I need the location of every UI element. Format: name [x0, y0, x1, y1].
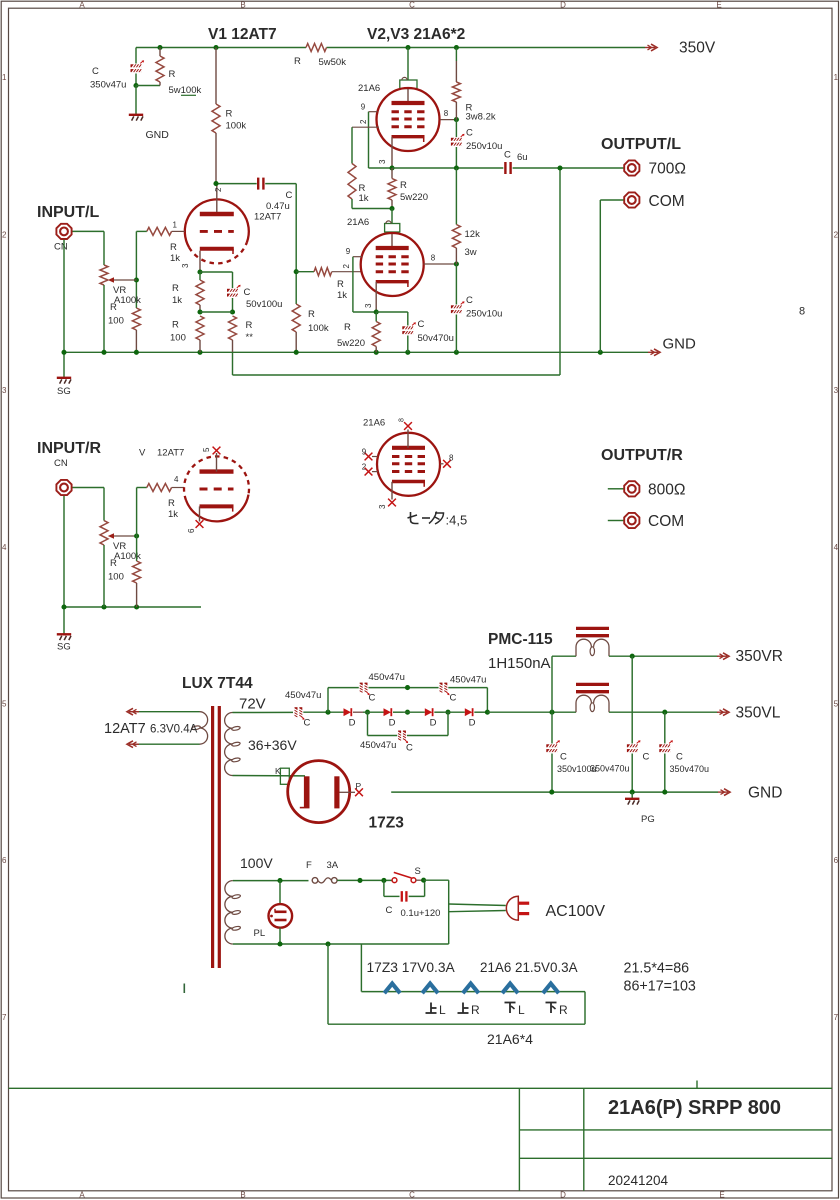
label shitaR — [546, 1002, 557, 1004]
svg-text:6: 6 — [187, 528, 196, 533]
resistor 12k 3w — [455, 168, 457, 225]
capacitor C 350v100u — [551, 712, 553, 743]
junction dot d3-d4 — [445, 710, 450, 715]
svg-text:7: 7 — [2, 1013, 7, 1022]
heater winding 6.3V — [200, 712, 208, 728]
pin 9 nc — [372, 456, 378, 458]
capacitor C 50v100u — [232, 272, 234, 288]
svg-text:R: R — [344, 322, 351, 333]
svg-text:R: R — [400, 180, 407, 191]
svg-text:20241204: 20241204 — [608, 1173, 669, 1188]
heater 21A6 lower L — [502, 984, 518, 994]
svg-text:C: C — [406, 743, 413, 754]
wire plate node to coupling cap — [216, 183, 257, 185]
svg-text:CN: CN — [54, 242, 68, 253]
switch S — [392, 878, 397, 883]
svg-text:E: E — [719, 1191, 724, 1200]
capacitor C 350v470u mid — [631, 656, 633, 743]
svg-text:C: C — [244, 287, 251, 298]
svg-text:5w220: 5w220 — [400, 192, 428, 203]
transformer core — [211, 706, 214, 968]
svg-text:0.1u+120: 0.1u+120 — [401, 908, 441, 919]
resistor R 100 cathode — [196, 316, 204, 340]
svg-text:0.47u: 0.47u — [266, 201, 290, 212]
svg-text:L: L — [439, 1003, 446, 1017]
junction dot cap/R5w100k — [133, 83, 138, 88]
wire to doubler — [303, 711, 343, 713]
svg-text:8: 8 — [799, 306, 805, 318]
wire 100V top — [233, 880, 309, 882]
svg-text:21A6: 21A6 — [363, 418, 385, 429]
resistor R 1k grid R — [137, 487, 147, 489]
svg-text:1: 1 — [2, 73, 7, 82]
svg-text:450v47u: 450v47u — [360, 740, 396, 751]
junction dot grid node — [294, 269, 299, 274]
pin 3 V3 cathode — [375, 282, 377, 312]
svg-text:C: C — [286, 190, 293, 201]
ground GND — [135, 86, 137, 115]
svg-text:R: R — [169, 69, 176, 80]
svg-text:LUX 7T44: LUX 7T44 — [182, 675, 253, 692]
svg-text:PL: PL — [254, 928, 266, 939]
lamp PL neon — [279, 881, 281, 905]
potentiometer VR A100k — [103, 231, 105, 265]
pin 5 plate no-connect — [216, 453, 218, 472]
svg-text:C: C — [643, 752, 650, 763]
junction dot rectifier output — [485, 710, 490, 715]
svg-text:D: D — [430, 718, 437, 729]
svg-text:450v47u: 450v47u — [450, 675, 486, 686]
svg-text:8: 8 — [449, 454, 454, 463]
pin 3 V2 cathode — [391, 137, 393, 168]
resistor R 100k grid leak — [292, 304, 300, 332]
wire cap to R 5w100k — [136, 85, 160, 87]
svg-text:GND: GND — [663, 336, 697, 353]
resistor R 5w50k — [306, 44, 327, 52]
svg-text:8: 8 — [431, 254, 436, 263]
svg-text:INPUT/L: INPUT/L — [37, 204, 99, 221]
svg-text:6: 6 — [834, 856, 839, 865]
svg-text:3: 3 — [2, 386, 7, 395]
wire bottom branch right — [407, 735, 448, 737]
svg-text:9: 9 — [361, 103, 366, 112]
wire to AC plug — [449, 904, 506, 906]
svg-text:9: 9 — [346, 247, 351, 256]
wire top branch — [327, 688, 329, 713]
junction dots cathode bottom — [197, 309, 202, 314]
resistor R 5w100k — [159, 48, 161, 57]
pin 2 V2 — [352, 126, 379, 128]
secondary winding 72V/36+36V — [225, 713, 233, 729]
heater 17Z3 — [384, 984, 400, 994]
svg-text:3: 3 — [378, 504, 387, 509]
heater 21A6 lower R — [543, 984, 559, 994]
label ueR — [462, 1003, 464, 1014]
wire 6.3V leads — [135, 711, 200, 713]
svg-text:V: V — [139, 448, 146, 459]
resistor R 1k cathode — [199, 272, 201, 280]
wire 72V line — [233, 711, 294, 713]
svg-text:C: C — [418, 319, 425, 330]
svg-text:21A6*4: 21A6*4 — [487, 1031, 533, 1047]
label ueL — [430, 1003, 432, 1014]
wire top branch to output node — [448, 687, 487, 689]
fuse F 3A — [312, 878, 318, 884]
wire to OUTPUT/L — [513, 167, 624, 169]
K connection box — [280, 768, 289, 784]
svg-text:350v470u: 350v470u — [590, 764, 630, 774]
label heater 4,5 — [411, 512, 419, 524]
svg-text:R: R — [226, 109, 233, 120]
svg-text:12AT7: 12AT7 — [157, 448, 184, 459]
svg-text:21A6: 21A6 — [347, 217, 369, 228]
potentiometer VR A100k wiper arrow — [112, 279, 136, 281]
svg-text:50v470u: 50v470u — [418, 333, 454, 344]
svg-text:2: 2 — [2, 231, 7, 240]
connector 800ohm jack — [608, 488, 624, 490]
svg-text:7: 7 — [834, 1013, 839, 1022]
wire jack R — [73, 487, 105, 489]
svg-text:12AT7: 12AT7 — [254, 212, 281, 223]
connector CN input jack R — [56, 480, 71, 495]
wire fuse to switch — [337, 879, 391, 881]
resistor R 3w8.2k — [455, 48, 457, 62]
wire feedback line — [232, 352, 234, 375]
capacitor C 450v47u top1 — [360, 683, 363, 693]
svg-text:R: R — [172, 283, 179, 294]
svg-text:100: 100 — [108, 572, 124, 583]
svg-text:3: 3 — [181, 263, 190, 268]
svg-text:21A6(P) SRPP 800: 21A6(P) SRPP 800 — [608, 1097, 781, 1119]
heater 21A6 upper L — [422, 984, 438, 994]
svg-text:5w50k: 5w50k — [319, 57, 347, 68]
node 350VL arrow — [717, 711, 727, 713]
svg-text:2: 2 — [359, 119, 368, 124]
svg-text:B: B — [240, 0, 245, 9]
choke upper 350VR — [551, 656, 553, 712]
svg-text:C: C — [676, 752, 683, 763]
svg-text:5: 5 — [2, 700, 7, 709]
svg-text:3: 3 — [378, 159, 387, 164]
svg-text:C: C — [92, 66, 99, 77]
capacitor C 450v47u bottom — [398, 731, 401, 741]
svg-text:350VR: 350VR — [736, 648, 783, 665]
svg-text:SG: SG — [57, 642, 71, 653]
svg-text:V2,V3 21A6*2: V2,V3 21A6*2 — [367, 26, 465, 43]
capacitor C 250v10u lower — [455, 264, 457, 305]
resistor R 100 input — [132, 308, 140, 330]
svg-text:350v470u: 350v470u — [670, 764, 710, 774]
wire 36V to 17Z3 K — [233, 775, 306, 777]
connector 700ohm jack — [624, 160, 639, 175]
wire bottom branch — [367, 712, 369, 735]
capacitor C 0.1u+120 — [383, 880, 385, 896]
svg-text:R: R — [471, 1003, 480, 1017]
tube V1 cathode network — [199, 251, 201, 272]
svg-text:1H150nA: 1H150nA — [488, 655, 551, 672]
wire 350VL line — [609, 711, 718, 713]
capacitor C 350v47u — [135, 48, 137, 64]
pin 1 line V1 — [172, 230, 185, 232]
pin 4 line — [172, 487, 184, 489]
svg-text:6u: 6u — [517, 152, 528, 163]
resistor R 100k plate load — [215, 48, 217, 105]
svg-text:21A6 21.5V0.3A: 21A6 21.5V0.3A — [480, 960, 578, 975]
svg-text:2: 2 — [834, 231, 839, 240]
svg-text:A: A — [79, 0, 85, 9]
pin 2 nc — [372, 471, 378, 473]
svg-text:5: 5 — [202, 447, 211, 452]
svg-text:12AT7: 12AT7 — [104, 721, 146, 737]
svg-text:INPUT/R: INPUT/R — [37, 440, 101, 457]
svg-text:C: C — [304, 718, 311, 729]
svg-text:C: C — [504, 150, 511, 161]
svg-text:V1 12AT7: V1 12AT7 — [208, 26, 277, 43]
primary winding 100V — [225, 881, 233, 897]
wire switch to plug corner — [424, 879, 449, 881]
svg-text:OUTPUT/L: OUTPUT/L — [601, 136, 681, 153]
svg-text:R: R — [170, 242, 177, 253]
svg-text:450v47u: 450v47u — [369, 672, 405, 683]
svg-text:350V: 350V — [679, 40, 716, 57]
svg-text:R: R — [168, 498, 175, 509]
capacitor C 6u coupling — [504, 162, 506, 174]
svg-text:C: C — [466, 295, 473, 306]
diode D3 — [425, 708, 433, 716]
svg-text:250v10u: 250v10u — [466, 141, 502, 152]
svg-text:C: C — [450, 693, 457, 704]
junction dot wiper — [134, 277, 139, 282]
resistor R 5w220 SRPP — [391, 168, 393, 179]
svg-text:6: 6 — [2, 856, 7, 865]
pin 8 V3 — [424, 263, 457, 265]
wire coupling cap to grid node — [265, 183, 296, 185]
wire 350V rail — [136, 47, 306, 49]
top cap no-connect — [407, 430, 409, 448]
svg-text:COM: COM — [648, 513, 684, 530]
svg-text:1: 1 — [834, 73, 839, 82]
svg-text:F: F — [306, 860, 312, 871]
svg-text:D: D — [560, 0, 566, 9]
svg-text:C: C — [560, 752, 567, 763]
svg-text:36+36V: 36+36V — [248, 737, 297, 753]
pin 8 V2 — [440, 119, 456, 121]
wire heater chain start — [360, 944, 362, 992]
capacitor C 0.47u — [257, 178, 259, 190]
svg-text:17Z3: 17Z3 — [369, 815, 405, 832]
svg-text:4: 4 — [834, 543, 839, 552]
ground SG left — [57, 377, 71, 379]
svg-text:3: 3 — [834, 386, 839, 395]
ground PG — [631, 792, 633, 798]
resistor R 1k V2 grid — [351, 127, 353, 163]
svg-text:12k: 12k — [465, 229, 481, 240]
svg-text:700Ω: 700Ω — [649, 161, 686, 178]
svg-text:R: R — [246, 320, 253, 331]
pin 3 nc — [391, 482, 393, 500]
svg-text:CN: CN — [54, 458, 68, 469]
svg-text:C: C — [409, 0, 415, 9]
choke lower 350VL — [576, 683, 609, 686]
wiper arrow R — [112, 535, 137, 537]
junction dot SRPP output — [454, 165, 459, 170]
resistor R 5w220 V3 cathode — [375, 312, 377, 322]
svg-text:2: 2 — [214, 187, 223, 192]
connector COM jack R — [608, 520, 624, 522]
pin 9 V2 — [369, 111, 378, 113]
wire rectifier to chokes — [487, 711, 576, 713]
capacitor C 450v47u top2 — [440, 683, 443, 693]
svg-text:3A: 3A — [327, 860, 339, 871]
svg-text:250v10u: 250v10u — [466, 309, 502, 320]
tube 17Z3 rectifier — [288, 761, 350, 823]
heater 21A6 upper R — [463, 984, 479, 994]
svg-text:21A6: 21A6 — [358, 83, 380, 94]
svg-text:R: R — [110, 302, 117, 313]
stray wire stub — [183, 984, 185, 994]
svg-text:2: 2 — [362, 463, 367, 472]
capacitor C 250v10u upper — [455, 120, 457, 137]
resistor R ** feedback — [229, 316, 237, 340]
svg-text:1k: 1k — [170, 253, 180, 264]
svg-text:R: R — [172, 320, 179, 331]
svg-text:C: C — [409, 1191, 415, 1200]
wire jack L — [73, 230, 105, 232]
svg-text:5w220: 5w220 — [337, 338, 365, 349]
svg-text:100: 100 — [170, 333, 186, 344]
svg-text:72V: 72V — [239, 696, 266, 713]
pin 6 cathode no-connect — [199, 506, 201, 521]
capacitor C 350v470u right — [664, 712, 666, 743]
svg-text:COM: COM — [649, 193, 685, 210]
wire ground rail R — [64, 606, 201, 608]
svg-text:D: D — [349, 718, 356, 729]
svg-text:A100k: A100k — [114, 295, 141, 306]
wire PS ground rail — [391, 791, 718, 793]
node 350V arrow — [645, 47, 655, 49]
svg-text:800Ω: 800Ω — [648, 482, 685, 499]
svg-text:GND: GND — [146, 129, 170, 141]
svg-text:P: P — [356, 781, 362, 791]
svg-text:PG: PG — [641, 814, 655, 825]
svg-text:1k: 1k — [337, 290, 347, 301]
svg-text:9: 9 — [362, 448, 367, 457]
capacitor C 50v470u — [376, 311, 408, 313]
pin 9 V3 — [353, 256, 362, 258]
wire grid vertical R — [136, 488, 138, 562]
svg-text:50v100u: 50v100u — [246, 299, 282, 310]
svg-text:R: R — [559, 1003, 568, 1017]
potentiometer VR A100k R — [103, 488, 105, 521]
wire ground rail L — [64, 351, 648, 353]
svg-text:5: 5 — [834, 700, 839, 709]
svg-text:8: 8 — [399, 418, 406, 422]
svg-text:4: 4 — [174, 475, 179, 484]
svg-text:100V: 100V — [240, 855, 273, 871]
svg-text:R: R — [337, 279, 344, 290]
svg-text:3w8.2k: 3w8.2k — [466, 112, 496, 123]
svg-text:2: 2 — [342, 264, 351, 269]
svg-text:C: C — [386, 905, 393, 916]
svg-text:86+17=103: 86+17=103 — [624, 979, 696, 995]
svg-text:R: R — [110, 558, 117, 569]
svg-text:D: D — [560, 1191, 566, 1200]
node 350VR arrow — [717, 655, 727, 657]
pin 8 nc — [440, 463, 444, 465]
svg-text:D: D — [469, 718, 476, 729]
tube V1 12AT7 left half — [185, 199, 249, 247]
capacitor C 450v47u series — [295, 707, 298, 717]
svg-text:450v47u: 450v47u — [285, 690, 321, 701]
svg-text:3w: 3w — [465, 247, 477, 258]
diode D4 — [465, 708, 473, 716]
svg-text:5w100k: 5w100k — [169, 85, 202, 96]
svg-text:21.5*4=86: 21.5*4=86 — [624, 961, 690, 977]
svg-text:E: E — [716, 0, 721, 9]
label shitaL — [505, 1002, 516, 1004]
wire grid vertical INPUT/L — [135, 231, 137, 308]
svg-text:D: D — [389, 718, 396, 729]
svg-text:1k: 1k — [359, 193, 369, 204]
svg-text:3: 3 — [364, 303, 373, 308]
svg-text::4,5: :4,5 — [446, 513, 468, 528]
svg-text:100k: 100k — [308, 323, 329, 334]
title block lines — [9, 1087, 833, 1089]
svg-text:100k: 100k — [226, 121, 247, 132]
wire V2 cathode to output node — [392, 167, 503, 169]
connector AC plug — [506, 896, 518, 920]
svg-text:PMC-115: PMC-115 — [488, 631, 553, 648]
svg-text:1: 1 — [173, 221, 178, 230]
svg-text:1k: 1k — [172, 295, 182, 306]
svg-text:1k: 1k — [168, 509, 178, 520]
connector CN input jack L — [56, 224, 71, 239]
tube V1b 12AT7 right half — [186, 495, 249, 522]
svg-text:C: C — [466, 128, 473, 139]
svg-text:R: R — [308, 309, 315, 320]
diode D1 — [344, 708, 352, 716]
svg-text:B: B — [240, 1191, 245, 1200]
svg-text:8: 8 — [444, 109, 449, 118]
resistor R 1k grid stopper V1 — [147, 227, 172, 235]
wire heater loop down — [327, 944, 329, 1024]
wire top branch 2 — [369, 687, 439, 689]
svg-text:A: A — [79, 1191, 85, 1200]
svg-text:K: K — [275, 766, 281, 776]
svg-text:OUTPUT/R: OUTPUT/R — [601, 447, 683, 464]
resistor R 1k grid stopper V3 — [296, 271, 314, 273]
wire 100V bottom rail — [233, 943, 449, 945]
pin P no-connect — [340, 791, 356, 793]
svg-text:350v47u: 350v47u — [90, 80, 126, 91]
diode D2 — [384, 708, 392, 716]
svg-text:4: 4 — [2, 543, 7, 552]
svg-text:L: L — [518, 1003, 525, 1017]
svg-text:C: C — [369, 693, 376, 704]
svg-text:6.3V0.4A: 6.3V0.4A — [150, 724, 198, 736]
svg-text:SG: SG — [57, 386, 71, 397]
junction dot d1-d2 — [365, 710, 370, 715]
svg-text:S: S — [415, 866, 421, 877]
svg-text:R: R — [294, 56, 301, 67]
node GND arrow PS — [718, 791, 728, 793]
svg-text:**: ** — [246, 332, 254, 343]
svg-text:350VL: 350VL — [736, 705, 781, 722]
svg-text:GND: GND — [748, 785, 782, 802]
ground SG right — [57, 633, 71, 635]
resistor R 100 input R — [133, 561, 141, 583]
svg-text:100: 100 — [108, 316, 124, 327]
